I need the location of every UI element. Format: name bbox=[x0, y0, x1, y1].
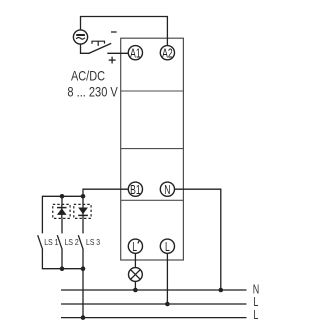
terminal N bbox=[160, 182, 174, 197]
svg-text:AC/DC: AC/DC bbox=[71, 69, 105, 84]
junction on N bus (right riser) bbox=[219, 288, 224, 293]
svg-text:8 ... 230 V: 8 ... 230 V bbox=[67, 85, 118, 100]
polarity label plus bbox=[109, 57, 116, 64]
label LS3 bbox=[86, 237, 100, 247]
wire: switch to A1 bbox=[107, 52, 128, 54]
label 8 ... 230 V bbox=[67, 85, 118, 100]
wire: LS3 bottom bbox=[82, 249, 84, 268]
svg-text:A1: A1 bbox=[130, 47, 140, 61]
divider 1 bbox=[121, 90, 184, 92]
junction bottom rail x83 bbox=[81, 266, 86, 271]
wire: source top to A2 bbox=[81, 17, 168, 46]
polarity label minus bbox=[111, 31, 117, 33]
label LS1 bbox=[44, 237, 58, 247]
wire: LS2 bottom bbox=[61, 249, 63, 268]
wire: branch 2 down bbox=[61, 196, 63, 233]
junction bottom rail x62 bbox=[60, 266, 65, 271]
wire: lamp to N bus bbox=[134, 281, 136, 290]
svg-text:L: L bbox=[132, 240, 137, 254]
divider 2 bbox=[121, 148, 184, 150]
label L (middle) bbox=[253, 296, 258, 310]
LED D2 (pointing down) bbox=[78, 204, 88, 218]
switch LS2 blade bbox=[57, 235, 62, 249]
wire: L to L bus bbox=[166, 253, 168, 304]
wire: LS1 bottom rail bbox=[42, 249, 83, 268]
bus L (bottom) bbox=[61, 317, 247, 319]
wire: left circuit to B1 bbox=[83, 189, 128, 196]
svg-text:L: L bbox=[253, 309, 258, 323]
wire: branch 3 down bbox=[82, 196, 84, 233]
junction on L bus bbox=[165, 302, 170, 307]
LED D2 dashed box bbox=[74, 204, 91, 218]
left circuit top rail bbox=[42, 196, 83, 233]
label N bbox=[253, 283, 259, 297]
label L (bottom) bbox=[253, 309, 258, 323]
junction top rail x83 bbox=[81, 194, 86, 199]
svg-text:N: N bbox=[164, 183, 170, 197]
junction on bottom L bus bbox=[81, 315, 86, 320]
svg-text:A2: A2 bbox=[162, 47, 172, 61]
wire: N to right riser bbox=[175, 189, 221, 290]
svg-text:B1: B1 bbox=[130, 183, 140, 197]
terminal L' bbox=[128, 239, 142, 254]
junction top rail x62 bbox=[60, 194, 65, 199]
LED D1 dashed box bbox=[53, 204, 70, 218]
svg-text:LS 3: LS 3 bbox=[86, 237, 100, 247]
label LS2 bbox=[65, 237, 79, 247]
source G1 (AC/DC supply) bbox=[73, 30, 87, 44]
switch LS1 blade bbox=[38, 235, 43, 249]
terminal B1 bbox=[128, 182, 142, 197]
device box bbox=[121, 38, 184, 260]
bus N bbox=[61, 289, 247, 291]
switch S1 actuator bbox=[92, 41, 105, 46]
terminal L bbox=[160, 239, 174, 254]
wire: LS3 riser to bottom L bus bbox=[82, 269, 84, 318]
switch LS3 blade bbox=[78, 235, 83, 249]
switch S1 blade bbox=[89, 43, 112, 53]
terminal A1 bbox=[128, 46, 142, 61]
svg-text:LS 2: LS 2 bbox=[65, 237, 79, 247]
LED D1 (pointing up) bbox=[57, 204, 67, 218]
wire: source bottom to switch bbox=[81, 44, 90, 53]
svg-text:L: L bbox=[165, 240, 170, 254]
bus L (middle) bbox=[61, 303, 247, 305]
svg-text:LS 1: LS 1 bbox=[44, 237, 58, 247]
wire: L' to lamp bbox=[134, 253, 136, 267]
junction on N bus (lamp) bbox=[133, 288, 138, 293]
svg-text:N: N bbox=[253, 283, 259, 297]
label AC/DC bbox=[71, 69, 105, 84]
terminal A2 bbox=[160, 46, 174, 61]
lamp E1 bbox=[129, 268, 143, 282]
divider 3 bbox=[121, 199, 184, 201]
